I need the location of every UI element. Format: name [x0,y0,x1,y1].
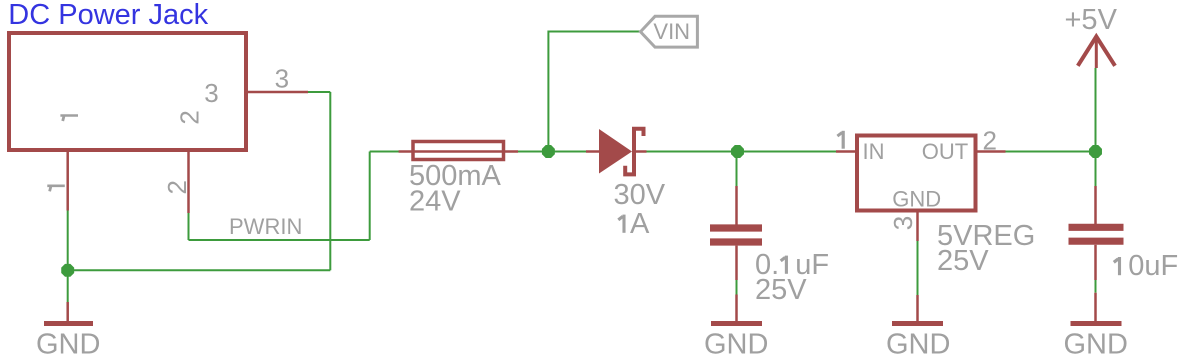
wire C1 to GND [736,280,738,295]
pin IN of U1 [836,150,857,153]
svg-text:OUT: OUT [922,139,968,164]
svg-text:25V: 25V [937,245,989,277]
pin number 1 of U1 (drawn) [837,131,843,149]
wire net GND horizontal [68,269,331,271]
pin name 1 inside X1 (rotated, drawn) [60,116,78,122]
svg-text:3: 3 [204,78,218,108]
wire net PWRIN horizontal [189,239,370,241]
svg-text:2: 2 [174,110,204,124]
value 1A of D1 (drawn 1 + A) [618,215,624,233]
wire fuse to diode [518,151,586,153]
wire diode to regulator [647,151,837,153]
svg-text:25V: 25V [755,274,807,306]
pin GND of U1 [916,213,919,242]
pin OUT of U1 [976,150,1006,153]
capacitor C1 [710,186,762,280]
svg-text:24V: 24V [409,186,461,218]
svg-text:GND: GND [1064,328,1128,360]
capacitor C2 [1069,186,1124,280]
svg-text:DC Power Jack: DC Power Jack [8,0,208,31]
svg-text:PWRIN: PWRIN [229,214,302,239]
svg-text:A: A [630,208,650,240]
ground symbol GND1 [36,302,100,360]
svg-text:2: 2 [162,180,192,194]
svg-text:IN: IN [863,139,885,164]
wire U1 GND pin to ground [917,241,919,295]
ground symbol GND3 [886,295,950,360]
svg-text:3: 3 [275,64,289,94]
wire net PWRIN from pin2 [188,213,190,240]
svg-text:GND: GND [704,328,768,360]
wire net GND to pin 3 [308,91,330,93]
pin 3 of X1 [248,91,308,94]
junction at pin1 net [61,264,74,277]
pin number 1 of X1 (rotated, drawn) [47,186,65,192]
connector X1 body [9,33,246,150]
ground symbol GND4 [1064,293,1128,360]
pin 1 of X1 [66,152,69,211]
svg-text:0uF: 0uF [1128,250,1178,282]
svg-text:2: 2 [983,126,997,156]
pin 2 of X1 [187,152,190,213]
svg-text:3: 3 [888,216,918,230]
wire OUT to +5V node [1006,151,1096,153]
wire net GND vertical riser [329,92,331,270]
wire up to VIN flag [548,32,640,152]
svg-text:30V: 30V [614,179,666,211]
wire up to +5V symbol [1095,68,1097,152]
fuse F1 [399,142,518,160]
junction +5V node [1089,145,1102,158]
wire net PWRIN to fuse [370,151,399,153]
wire C1 tap down [736,152,738,187]
regulator U1 body [857,136,976,211]
wire +5V node down to C2 [1095,152,1097,187]
svg-text:GND: GND [36,328,100,360]
supply symbol +5V [1065,4,1118,68]
wire net PWRIN riser [369,152,371,241]
diode D1 schottky [586,129,647,175]
ground symbol GND2 [704,295,768,360]
junction C1 tap [731,145,744,158]
svg-text:GND: GND [892,186,941,211]
wire C2 to GND [1095,280,1097,293]
wire net GND from pin1 down [67,211,69,303]
svg-text:GND: GND [886,328,950,360]
value 10uF of C2 (drawn 1) [1114,257,1120,275]
svg-text:+5V: +5V [1065,4,1118,36]
svg-text:VIN: VIN [653,19,690,44]
net flag VIN [641,16,698,47]
junction VIN tap [542,145,555,158]
